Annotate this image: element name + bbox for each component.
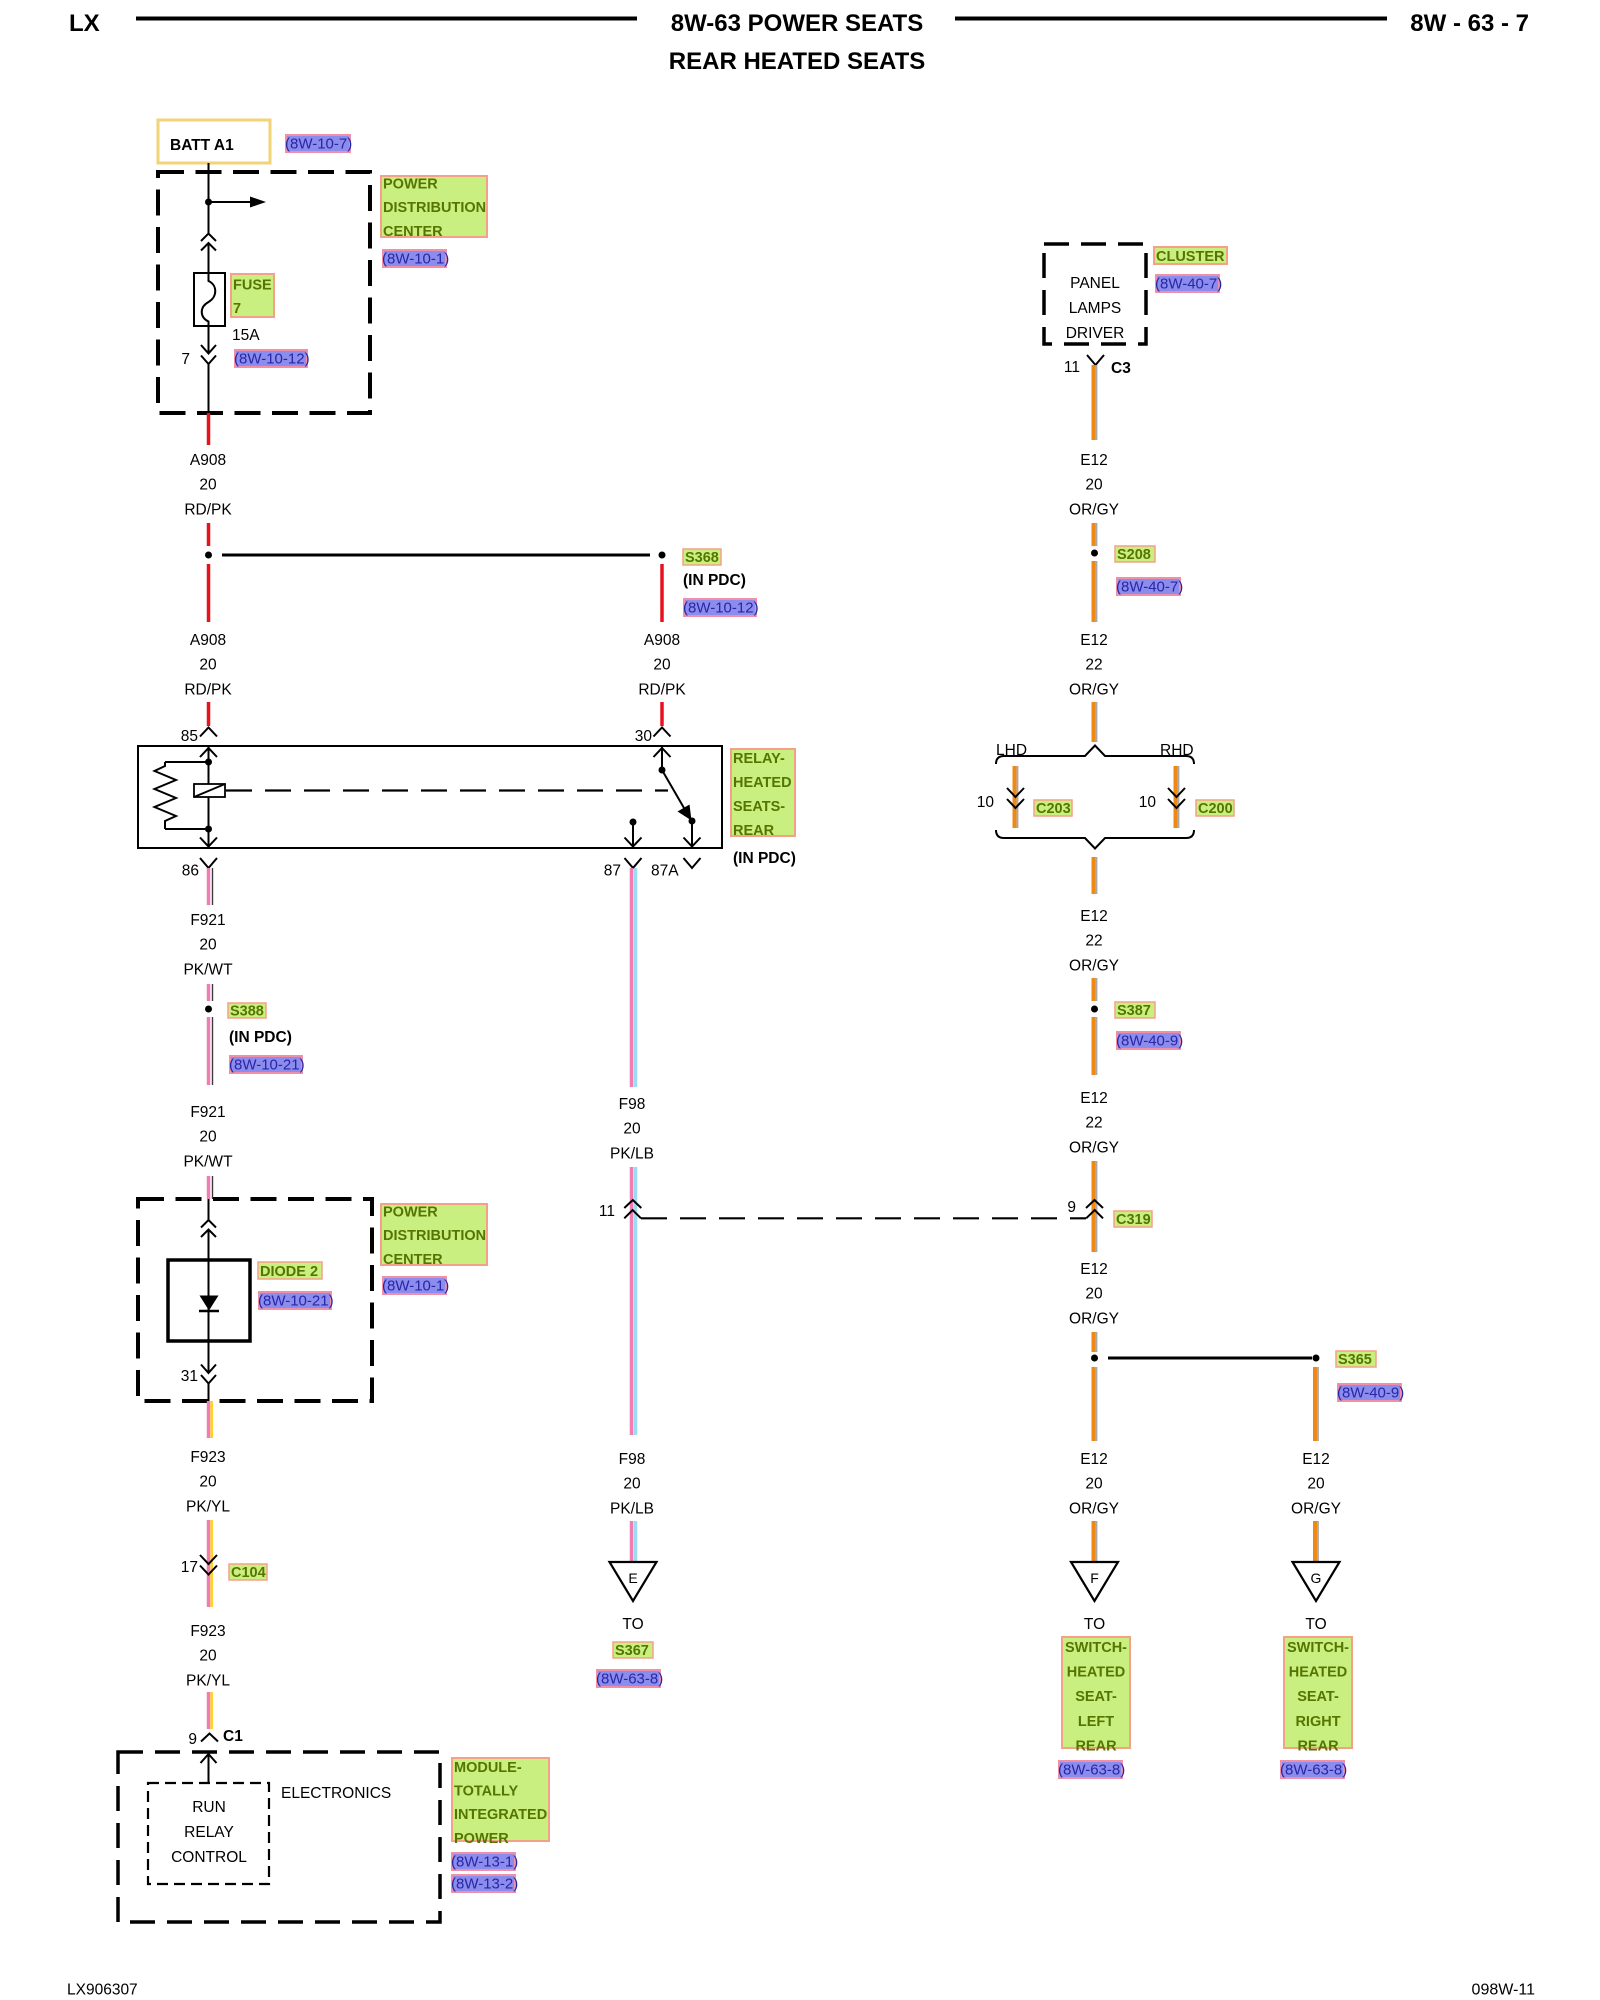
svg-text:11: 11	[1064, 359, 1080, 376]
svg-text:TO: TO	[1305, 1616, 1326, 1633]
wire F923 PK/YL below PDC 2	[209, 1401, 212, 1438]
svg-text:(8W-63-8): (8W-63-8)	[1058, 1762, 1125, 1779]
wire F98 PK/LB into off-page E	[632, 1521, 636, 1564]
wire F921 PK/WT segment to splice S388	[209, 984, 213, 1001]
svg-text:OR/GY: OR/GY	[1069, 1500, 1119, 1517]
diode element	[199, 1260, 219, 1341]
svg-text:S368: S368	[685, 550, 719, 566]
svg-text:RD/PK: RD/PK	[184, 501, 232, 518]
svg-text:F98: F98	[619, 1096, 646, 1113]
svg-text:(8W-10-1): (8W-10-1)	[382, 251, 449, 268]
connector label C200	[1196, 800, 1234, 817]
svg-text:OR/GY: OR/GY	[1291, 1500, 1341, 1517]
relay switch blade with arrowhead	[662, 770, 692, 821]
svg-text:F98: F98	[619, 1451, 646, 1468]
wire pin 31 chevrons to PDC edge	[208, 1384, 210, 1402]
wire E12 OR/GY to splice S208	[1094, 523, 1097, 546]
svg-text:(8W-40-9): (8W-40-9)	[1116, 1033, 1183, 1050]
wire label A908 20 RD/PK	[184, 452, 232, 518]
svg-text:FUSE: FUSE	[233, 278, 272, 294]
wire label E12 20 OR/GY	[1069, 452, 1119, 518]
wire F98 PK/LB below relay 87	[632, 868, 636, 1087]
svg-text:10: 10	[1139, 794, 1157, 811]
splice S208 junction dot	[1091, 550, 1098, 557]
switch heated seat left rear label box	[1062, 1637, 1130, 1754]
connector C104 chevrons (down)	[200, 1555, 217, 1575]
svg-text:86: 86	[182, 863, 199, 880]
relay mechanical link dashed line	[226, 789, 668, 791]
svg-text:RELAY: RELAY	[184, 1824, 234, 1841]
svg-text:20: 20	[199, 1648, 217, 1665]
relay coil resistor zigzag	[155, 762, 177, 829]
svg-text:30: 30	[635, 728, 653, 745]
svg-text:20: 20	[623, 1121, 641, 1138]
PDC reference label (8W-10-1)	[382, 250, 449, 268]
connector label C319	[1114, 1211, 1152, 1228]
svg-text:REAR HEATED SEATS: REAR HEATED SEATS	[669, 48, 925, 75]
svg-text:LX: LX	[69, 10, 100, 37]
svg-text:TO: TO	[1084, 1616, 1105, 1633]
svg-text:22: 22	[1085, 1115, 1102, 1132]
option split bracket bottom	[996, 830, 1194, 849]
svg-text:87: 87	[604, 863, 621, 880]
connector C200 chevrons (down)	[1168, 788, 1185, 808]
svg-text:(8W-10-12): (8W-10-12)	[683, 600, 759, 617]
wire F921 PK/WT segment below 86	[209, 868, 213, 905]
svg-text:F921: F921	[190, 912, 225, 929]
svg-text:OR/GY: OR/GY	[1069, 681, 1119, 698]
module totally integrated power dashed box	[118, 1752, 440, 1922]
wire label E12 20 OR/GY below C319	[1069, 1261, 1119, 1327]
relay pin 30 male chevron	[654, 728, 671, 737]
relay contact 87 junction dot	[630, 819, 637, 826]
connector C319 chevrons (up)	[1086, 1200, 1103, 1218]
relay pin 87A female chevron	[684, 858, 701, 868]
reference label (8W-63-8) right	[1280, 1761, 1347, 1779]
LHD branch wire OR/GY	[1015, 766, 1018, 828]
svg-text:E12: E12	[1080, 632, 1108, 649]
wire chevrons to fuse	[208, 243, 210, 273]
svg-text:DISTRIBUTION: DISTRIBUTION	[383, 1228, 486, 1244]
svg-text:SEAT-: SEAT-	[1075, 1689, 1117, 1705]
splice label S208	[1115, 546, 1155, 563]
wire E12 OR/GY to C319	[1094, 1161, 1097, 1224]
splice S365 horizontal wire	[1108, 1357, 1312, 1360]
reference label (8W-40-9) at S387	[1116, 1032, 1183, 1050]
svg-text:PK/WT: PK/WT	[183, 1153, 233, 1170]
diode reference label (8W-10-21)	[258, 1292, 334, 1310]
option split bracket top	[996, 746, 1194, 765]
svg-text:(8W-40-7): (8W-40-7)	[1155, 276, 1222, 293]
wire E12 OR/GY into off-page G	[1315, 1521, 1318, 1564]
svg-text:CENTER: CENTER	[383, 224, 443, 240]
wire label F921 20 PK/WT	[183, 912, 233, 978]
fuse 7 symbol	[194, 273, 225, 326]
wire F923 PK/YL to C1	[209, 1692, 212, 1729]
svg-text:(8W-13-2): (8W-13-2)	[451, 1876, 518, 1893]
splice S388 junction dot	[205, 1006, 212, 1013]
PDC 2 reference label (8W-10-1)	[382, 1277, 449, 1295]
wire label A908 20 RD/PK right	[638, 632, 686, 698]
svg-text:E12: E12	[1080, 908, 1108, 925]
svg-text:C104: C104	[231, 1565, 266, 1581]
wire A908 red into relay pin 85	[207, 702, 211, 726]
off-page connector triangle E	[610, 1562, 657, 1601]
wire chevrons to diode	[208, 1231, 210, 1261]
svg-text:(8W-10-7): (8W-10-7)	[285, 136, 352, 153]
svg-text:(8W-10-12): (8W-10-12)	[234, 351, 310, 368]
RHD branch wire OR/GY	[1176, 766, 1179, 828]
svg-text:8W - 63 - 7: 8W - 63 - 7	[1410, 10, 1529, 37]
reference label (8W-40-7) at S208	[1116, 578, 1183, 596]
off-page connector triangle G	[1293, 1562, 1340, 1601]
wire fuse to PDC edge	[208, 326, 210, 354]
wire label E12 22 OR/GY below split	[1069, 908, 1119, 974]
relay contact 87A arrow (down)	[684, 821, 701, 847]
wire E12 OR/GY into LHD/RHD split	[1094, 702, 1097, 742]
wire E12 OR/GY into off-page F	[1094, 1521, 1097, 1564]
cluster label green box	[1154, 247, 1227, 265]
svg-text:OR/GY: OR/GY	[1069, 1139, 1119, 1156]
svg-text:C1: C1	[223, 1728, 243, 1745]
panel lamps driver dashed box	[1044, 244, 1146, 344]
panel lamps driver text	[1066, 275, 1125, 342]
svg-text:20: 20	[653, 657, 671, 674]
svg-text:BATT A1: BATT A1	[170, 137, 234, 154]
splice S387 junction dot	[1091, 1006, 1098, 1013]
diode label DIODE 2	[258, 1262, 322, 1280]
splice label S365	[1336, 1351, 1376, 1368]
svg-text:20: 20	[1307, 1476, 1325, 1493]
wire from battery into PDC	[208, 163, 210, 234]
svg-text:15A: 15A	[232, 327, 260, 344]
relay coil box symbol	[194, 784, 225, 797]
svg-text:C319: C319	[1116, 1212, 1151, 1228]
svg-text:REAR: REAR	[733, 823, 775, 839]
module reference label (8W-13-1)	[451, 1853, 518, 1871]
svg-text:RD/PK: RD/PK	[184, 681, 232, 698]
wire label E12 22 OR/GY above C319	[1069, 1090, 1119, 1156]
wire A908 red into relay pin 30	[660, 702, 664, 726]
relay contact 87A junction dot	[689, 818, 696, 825]
svg-text:OR/GY: OR/GY	[1069, 501, 1119, 518]
wire label F921 20 PK/WT lower	[183, 1104, 233, 1170]
connector label C203	[1034, 800, 1072, 817]
diode 2 box	[168, 1260, 250, 1341]
wire E12 OR/GY below S208	[1094, 561, 1097, 622]
branch arrow to other circuits	[209, 197, 267, 208]
in-line connector chevrons (up) pin 11	[624, 1200, 641, 1218]
relay coil vertical wire	[208, 762, 210, 829]
svg-text:PK/YL: PK/YL	[186, 1498, 230, 1515]
wire into diode	[208, 1199, 210, 1220]
svg-text:(8W-10-21): (8W-10-21)	[258, 1293, 334, 1310]
relay coil bottom junction dot	[205, 826, 212, 833]
PDC label box 2	[381, 1204, 487, 1268]
svg-text:LAMPS: LAMPS	[1069, 300, 1122, 317]
svg-text:20: 20	[199, 657, 217, 674]
connector C3 female chevron	[1087, 355, 1104, 365]
wire label F923 20 PK/YL	[186, 1449, 230, 1515]
wire label A908 20 RD/PK left lower	[184, 632, 232, 698]
svg-text:CLUSTER: CLUSTER	[1156, 249, 1225, 265]
reference label (8W-40-9) at S365	[1337, 1384, 1404, 1402]
relay label green box	[731, 749, 795, 839]
svg-text:20: 20	[199, 1474, 217, 1491]
svg-text:SWITCH-: SWITCH-	[1287, 1640, 1349, 1656]
svg-text:RIGHT: RIGHT	[1295, 1714, 1340, 1730]
power distribution center dashed box (top)	[158, 172, 370, 413]
splice S365 junction dot right	[1313, 1355, 1320, 1362]
svg-text:SEAT-: SEAT-	[1297, 1689, 1339, 1705]
svg-text:20: 20	[1085, 477, 1103, 494]
wire diode to pin 31	[208, 1341, 210, 1373]
connector label C104	[229, 1564, 267, 1581]
wire label F98 20 PK/LB	[610, 1096, 654, 1162]
relay contact 87 arrow (down)	[625, 822, 642, 847]
svg-text:(8W-40-9): (8W-40-9)	[1337, 1385, 1404, 1402]
svg-text:S388: S388	[230, 1004, 264, 1020]
svg-text:POWER: POWER	[383, 177, 438, 193]
wire A908 red segment below PDC	[207, 413, 211, 445]
svg-text:F923: F923	[190, 1449, 225, 1466]
svg-text:(8W-63-8): (8W-63-8)	[1280, 1762, 1347, 1779]
cluster reference label (8W-40-7)	[1155, 275, 1222, 293]
svg-text:RELAY-: RELAY-	[733, 751, 785, 767]
svg-text:20: 20	[199, 477, 217, 494]
svg-text:E12: E12	[1080, 1451, 1108, 1468]
in-line connector chevrons (up) above diode	[201, 1220, 216, 1237]
svg-text:S387: S387	[1117, 1003, 1151, 1019]
svg-text:DRIVER: DRIVER	[1066, 325, 1125, 342]
relay pin 85 male chevron	[200, 728, 217, 737]
svg-text:MODULE-: MODULE-	[454, 1760, 522, 1776]
svg-text:11: 11	[599, 1203, 615, 1220]
svg-text:OR/GY: OR/GY	[1069, 1310, 1119, 1327]
svg-text:(IN PDC): (IN PDC)	[229, 1029, 292, 1046]
run relay control text	[171, 1799, 247, 1866]
svg-text:A908: A908	[644, 632, 680, 649]
svg-text:G: G	[1311, 1570, 1322, 1586]
connector C203 chevrons (down)	[1007, 788, 1024, 808]
svg-text:TO: TO	[622, 1616, 643, 1633]
svg-text:C3: C3	[1111, 360, 1131, 377]
wire E12 OR/GY merged below split	[1094, 857, 1097, 894]
svg-text:CONTROL: CONTROL	[171, 1849, 247, 1866]
svg-text:22: 22	[1085, 933, 1102, 950]
svg-text:S208: S208	[1117, 547, 1151, 563]
svg-text:REAR: REAR	[1075, 1738, 1117, 1754]
svg-text:POWER: POWER	[383, 1205, 438, 1221]
svg-text:E: E	[628, 1570, 637, 1586]
wire F921 PK/WT below splice	[209, 1017, 213, 1085]
svg-text:ELECTRONICS: ELECTRONICS	[281, 1785, 391, 1802]
svg-text:HEATED: HEATED	[1067, 1665, 1126, 1681]
in-line connector chevrons (down) pin 31	[201, 1365, 216, 1384]
run relay control inner dashed box	[148, 1783, 269, 1884]
off-page connector triangle F	[1071, 1562, 1118, 1601]
PDC label box	[381, 176, 487, 240]
power distribution center dashed box (diode)	[138, 1199, 372, 1401]
svg-text:S365: S365	[1338, 1352, 1372, 1368]
svg-text:7: 7	[181, 351, 190, 368]
svg-text:C203: C203	[1036, 801, 1071, 817]
svg-text:F: F	[1090, 1570, 1099, 1586]
svg-text:(IN PDC): (IN PDC)	[733, 850, 796, 867]
wire label E12 20 OR/GY right bottom	[1291, 1451, 1341, 1517]
reference label (8W-10-21) at S388	[229, 1056, 305, 1074]
relay coil top wire to resistor	[165, 761, 209, 763]
svg-text:(8W-10-21): (8W-10-21)	[229, 1057, 305, 1074]
svg-text:DISTRIBUTION: DISTRIBUTION	[383, 200, 486, 216]
svg-text:7: 7	[233, 301, 241, 317]
svg-text:20: 20	[1085, 1286, 1103, 1303]
relay coil top junction dot	[205, 759, 212, 766]
relay coil feed arrow (up) pin 85	[200, 746, 217, 762]
wire A908 red below splice right	[660, 564, 664, 622]
svg-text:PK/WT: PK/WT	[183, 961, 233, 978]
svg-text:E12: E12	[1302, 1451, 1330, 1468]
svg-text:PK/LB: PK/LB	[610, 1145, 654, 1162]
wire label E12 22 OR/GY	[1069, 632, 1119, 698]
svg-text:LX906307: LX906307	[67, 1982, 138, 1999]
splice label S367	[613, 1642, 653, 1659]
svg-text:LEFT: LEFT	[1078, 1714, 1114, 1730]
reference label (8W-10-12)	[234, 350, 310, 368]
battery feed BATT A1 box	[158, 120, 270, 163]
wire F923 PK/YL to C104	[209, 1520, 212, 1607]
reference label (8W-10-12) right of S368	[683, 599, 759, 617]
wire label F98 20 PK/LB lower	[610, 1451, 654, 1517]
svg-text:INTEGRATED: INTEGRATED	[454, 1807, 547, 1823]
svg-text:F923: F923	[190, 1623, 225, 1640]
svg-text:(8W-10-1): (8W-10-1)	[382, 1278, 449, 1295]
wire A908 red segment to splice	[207, 523, 211, 546]
svg-text:(8W-40-7): (8W-40-7)	[1116, 579, 1183, 596]
splice S368 junction dot left	[205, 552, 212, 559]
svg-text:S367: S367	[615, 1643, 649, 1659]
svg-text:10: 10	[977, 794, 995, 811]
svg-text:PK/LB: PK/LB	[610, 1500, 654, 1517]
svg-text:REAR: REAR	[1297, 1738, 1339, 1754]
splice S365 junction dot left	[1091, 1355, 1098, 1362]
wire label F923 20 PK/YL lower	[186, 1623, 230, 1689]
svg-text:87A: 87A	[651, 863, 679, 880]
svg-text:OR/GY: OR/GY	[1069, 957, 1119, 974]
svg-text:9: 9	[1067, 1199, 1076, 1216]
svg-text:C200: C200	[1198, 801, 1233, 817]
svg-text:22: 22	[1085, 657, 1102, 674]
relay coil bottom wire from resistor	[165, 828, 209, 830]
splice label S368	[683, 549, 721, 566]
svg-text:CENTER: CENTER	[383, 1252, 443, 1268]
wire E12 OR/GY below S365 left	[1094, 1367, 1097, 1441]
wire chevrons to PDC edge	[208, 364, 210, 413]
svg-text:(8W-63-8): (8W-63-8)	[596, 1671, 663, 1688]
svg-text:RD/PK: RD/PK	[638, 681, 686, 698]
wire label E12 20 OR/GY left bottom	[1069, 1451, 1119, 1517]
wire F921 PK/WT into PDC 2	[209, 1176, 213, 1199]
svg-text:20: 20	[623, 1476, 641, 1493]
wire A908 red below splice left	[207, 564, 211, 622]
svg-text:17: 17	[181, 1559, 198, 1576]
wire E12 OR/GY to splice S387	[1094, 978, 1097, 1001]
svg-text:(8W-13-1): (8W-13-1)	[451, 1854, 518, 1871]
module reference label (8W-13-2)	[451, 1875, 518, 1893]
wire E12 OR/GY to splice S365	[1094, 1332, 1097, 1352]
svg-text:HEATED: HEATED	[1289, 1665, 1348, 1681]
svg-text:SWITCH-: SWITCH-	[1065, 1640, 1127, 1656]
svg-text:HEATED: HEATED	[733, 775, 792, 791]
svg-text:POWER: POWER	[454, 1831, 509, 1847]
wire E12 OR/GY below S387	[1094, 1017, 1097, 1075]
relay common feed arrow (up) pin 30	[654, 746, 671, 770]
reference label (8W-10-7)	[285, 135, 352, 153]
wire F98 PK/LB to connector 11	[632, 1167, 636, 1221]
splice label S387	[1115, 1002, 1155, 1019]
relay switch pivot dot	[659, 767, 666, 774]
svg-text:85: 85	[181, 728, 198, 745]
relay coil output arrow (down) pin 86	[200, 829, 217, 847]
svg-text:RUN: RUN	[192, 1799, 226, 1816]
svg-text:20: 20	[199, 937, 217, 954]
run relay control feed arrow	[201, 1754, 217, 1783]
splice S368 horizontal wire	[222, 554, 650, 557]
in-line connector chevrons (down) pin 7	[201, 345, 216, 364]
C319 dashed association line	[641, 1217, 1086, 1219]
svg-text:PANEL: PANEL	[1070, 275, 1120, 292]
svg-text:DIODE 2: DIODE 2	[260, 1264, 318, 1280]
svg-text:E12: E12	[1080, 452, 1108, 469]
header rule right	[955, 17, 1387, 21]
junction node on battery feed	[205, 199, 212, 206]
wire E12 OR/GY below C319	[1094, 1224, 1097, 1252]
relay heated seats rear box	[138, 746, 722, 848]
connector C1 male chevron	[201, 1734, 218, 1742]
svg-text:PK/YL: PK/YL	[186, 1672, 230, 1689]
svg-text:A908: A908	[190, 452, 226, 469]
svg-text:20: 20	[1085, 1476, 1103, 1493]
svg-text:SEATS-: SEATS-	[733, 799, 785, 815]
splice label S388	[228, 1003, 266, 1020]
fuse label FUSE 7	[231, 274, 274, 317]
svg-text:8W-63 POWER SEATS: 8W-63 POWER SEATS	[671, 10, 923, 37]
header rule left	[136, 17, 637, 21]
wire E12 OR/GY below S365 right	[1315, 1367, 1318, 1441]
svg-text:E12: E12	[1080, 1090, 1108, 1107]
svg-text:F921: F921	[190, 1104, 225, 1121]
svg-text:E12: E12	[1080, 1261, 1108, 1278]
wire F98 PK/LB long run	[632, 1221, 636, 1435]
module label green box	[452, 1758, 549, 1847]
svg-text:20: 20	[199, 1129, 217, 1146]
relay pin 87 female chevron	[625, 858, 642, 868]
reference label (8W-63-8) left	[1058, 1761, 1125, 1779]
svg-text:TOTALLY: TOTALLY	[454, 1784, 519, 1800]
svg-text:098W-11: 098W-11	[1472, 1982, 1536, 1999]
svg-text:(IN PDC): (IN PDC)	[683, 572, 746, 589]
svg-text:31: 31	[181, 1368, 198, 1385]
splice S368 junction dot right	[659, 552, 666, 559]
in-line connector chevrons (up) on battery feed	[201, 234, 216, 251]
svg-text:9: 9	[188, 1731, 197, 1748]
switch heated seat right rear label box	[1284, 1637, 1352, 1754]
relay pin 86 female chevron	[200, 858, 217, 868]
reference label (8W-63-8) at S367	[596, 1670, 663, 1688]
wire E12 OR/GY from C3	[1094, 365, 1097, 440]
svg-text:A908: A908	[190, 632, 226, 649]
